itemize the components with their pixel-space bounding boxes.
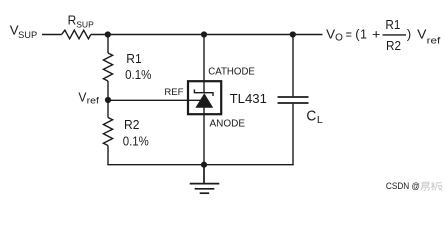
wire R1 to Vref node: [107, 81, 109, 100]
svg-text:C: C: [306, 107, 316, 124]
svg-text:R1: R1: [126, 51, 141, 66]
svg-text:ANODE: ANODE: [210, 118, 246, 129]
wire VSUP to RSUP: [42, 34, 62, 36]
zener cathode bar: [194, 89, 213, 96]
svg-text:SUP: SUP: [18, 30, 37, 40]
wire cathode: [203, 35, 205, 93]
label R2 value: [123, 117, 149, 149]
wire anode: [203, 108, 205, 165]
label VSUP: [10, 23, 38, 40]
wire R2 to bottom rail: [107, 146, 109, 165]
svg-text:R1: R1: [385, 17, 400, 32]
svg-text:ref: ref: [427, 36, 441, 46]
wire top node to R1: [107, 35, 109, 54]
capacitor CL: [278, 97, 309, 103]
wire capacitor top: [292, 35, 294, 97]
resistor RSUP: [62, 30, 91, 39]
ground: [190, 165, 220, 194]
svg-text:R2: R2: [386, 38, 401, 53]
svg-text:): ): [407, 27, 411, 42]
svg-text:V: V: [417, 27, 426, 42]
node Vref junction dot: [105, 97, 111, 103]
svg-text:O: O: [335, 33, 343, 44]
zener triangle: [195, 93, 213, 108]
svg-text:REF: REF: [164, 87, 184, 97]
svg-text:0.1%: 0.1%: [123, 133, 149, 148]
svg-text:0.1%: 0.1%: [125, 67, 151, 82]
svg-text:CSDN @: CSDN @: [386, 181, 420, 191]
node junction dot top right: [290, 31, 296, 37]
label R1 value: [125, 51, 151, 82]
svg-text:+: +: [372, 27, 381, 42]
svg-text:V: V: [326, 27, 335, 42]
wire Vref node to R2: [107, 100, 109, 118]
label RSUP: [68, 13, 94, 30]
resistor R1: [103, 53, 112, 81]
node VO formula: [326, 17, 441, 53]
node junction dot cathode: [201, 31, 207, 37]
svg-text:V: V: [78, 90, 86, 105]
label CL: [306, 107, 323, 126]
svg-text:SUP: SUP: [76, 20, 94, 30]
svg-text:=: =: [346, 27, 352, 42]
svg-text:R: R: [68, 13, 77, 28]
resistor R2: [103, 118, 112, 146]
watermark CSDN: [386, 181, 443, 191]
wire capacitor bottom: [292, 104, 294, 165]
wire top rail: [91, 34, 323, 36]
svg-text:R2: R2: [124, 117, 139, 132]
label Vref: [78, 90, 99, 106]
svg-text:L: L: [317, 115, 324, 126]
node junction dot top left: [105, 31, 111, 37]
node anode junction dot: [201, 162, 207, 168]
svg-text:TL431: TL431: [230, 92, 267, 106]
op-amp U1 TL431 box: [188, 81, 221, 114]
svg-text:ref: ref: [87, 96, 100, 106]
svg-text:CATHODE: CATHODE: [208, 67, 255, 78]
wire Vref to REF pin: [108, 99, 201, 101]
wire bottom rail: [107, 164, 293, 166]
svg-text:1: 1: [360, 27, 367, 42]
